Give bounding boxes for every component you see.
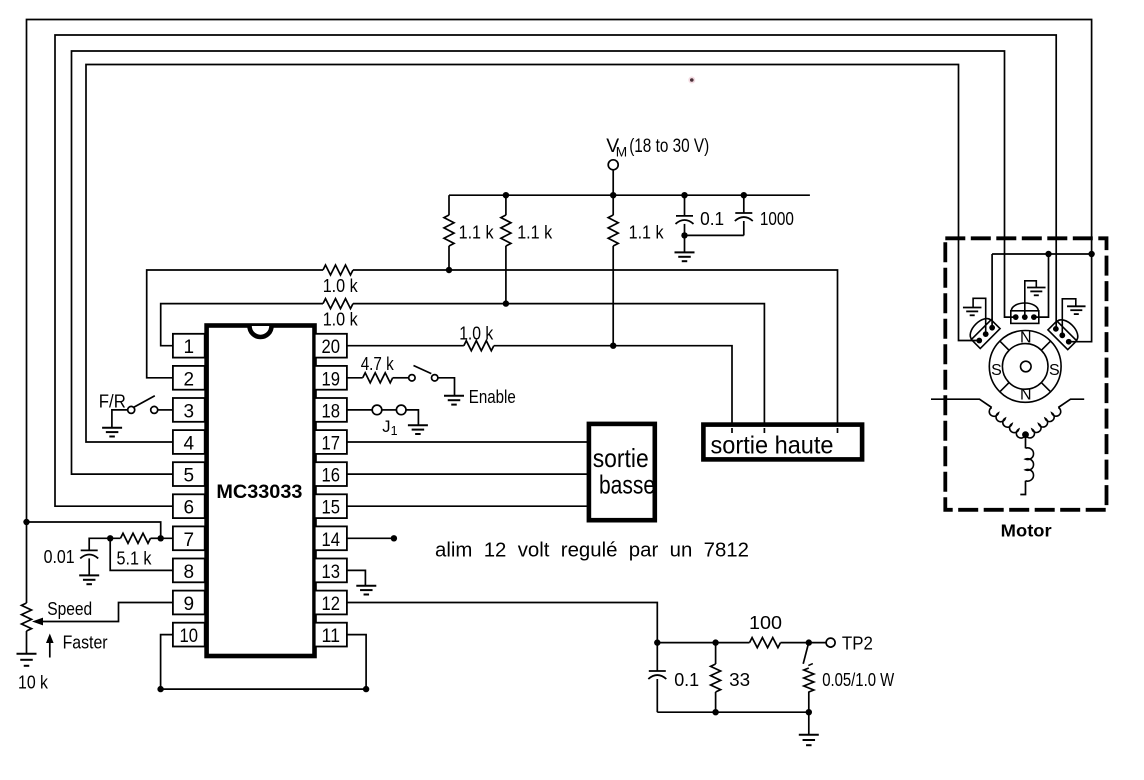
svg-text:20: 20 xyxy=(322,337,341,358)
svg-text:13: 13 xyxy=(322,562,341,583)
ground sense xyxy=(799,734,819,736)
box sortie haute xyxy=(703,425,862,460)
pin 15 box xyxy=(315,494,347,518)
resistor 1.1 k (mid) leads xyxy=(505,195,507,215)
svg-text:J: J xyxy=(382,418,390,436)
wiper arrow xyxy=(32,618,43,626)
wire pin15 to sortie basse xyxy=(347,505,592,507)
jumper J1 link xyxy=(382,409,397,411)
rotor hub xyxy=(1021,361,1032,372)
node junction bus1 x=449 xyxy=(446,267,452,273)
arrow Faster xyxy=(49,641,51,658)
pin 2 box xyxy=(173,366,205,390)
wire pin18 to J1 xyxy=(347,409,372,411)
wire bus2 pin1 net y=303.6 xyxy=(161,304,323,346)
jumper J1 circle left xyxy=(372,405,382,415)
red annotation dot xyxy=(688,77,695,84)
node junction bottom x=808.8 xyxy=(806,709,812,715)
svg-text:8: 8 xyxy=(184,562,195,583)
svg-text:10 k: 10 k xyxy=(18,672,49,693)
svg-text:11: 11 xyxy=(322,626,341,647)
resistor 1.1 k (right) xyxy=(608,215,618,246)
wire pin13 to ground xyxy=(347,570,366,585)
svg-text:Faster: Faster xyxy=(63,633,108,653)
switch enable blade xyxy=(414,366,432,374)
resistor 1.1 k (mid) xyxy=(501,215,511,246)
pin 19 box xyxy=(315,366,347,390)
wire pin17 to sortie basse xyxy=(347,441,592,443)
resistor 33 xyxy=(711,664,721,692)
ground pot xyxy=(17,653,37,655)
wire rail pin6 net: x=55 / y=35 / x=1056.2 xyxy=(55,35,1056,506)
wire rail1 to pin7 xyxy=(27,522,173,538)
svg-text:1.0 k: 1.0 k xyxy=(323,309,359,330)
svg-text:6: 6 xyxy=(184,498,195,519)
pin 4 box xyxy=(173,430,205,454)
svg-text:18: 18 xyxy=(322,401,341,422)
svg-text:0.05/1.0 W: 0.05/1.0 W xyxy=(822,669,894,690)
svg-text:S: S xyxy=(1049,362,1060,379)
wire pin12 to sense network xyxy=(347,603,657,643)
pin 7 box xyxy=(173,526,205,550)
pin 3 box xyxy=(173,398,205,422)
svg-text:1.1 k: 1.1 k xyxy=(629,222,665,243)
wire bus1 into haute xyxy=(837,428,839,433)
winding stub right xyxy=(1058,399,1084,407)
ground below 0.1 xyxy=(675,251,695,253)
switch F/R contact left xyxy=(128,406,135,413)
wire 5.1k left to cap/pin8 xyxy=(151,537,161,539)
resistor 100 xyxy=(750,638,781,648)
capacitor 0.1 top lead xyxy=(684,195,686,216)
svg-text:1.0 k: 1.0 k xyxy=(459,323,494,344)
wire VM terminal to bus xyxy=(612,170,614,195)
node VM terminal xyxy=(608,160,618,170)
wire bus1 pin2 net y=270 xyxy=(147,270,323,378)
wire pin16 to sortie basse xyxy=(347,473,592,475)
svg-text:33: 33 xyxy=(729,669,750,690)
node junction VM bus x=505.9 xyxy=(503,192,509,198)
capacitor 1000 top lead xyxy=(743,195,745,213)
node junction pin7 xyxy=(158,535,164,541)
node junction VM bus x=613.2 xyxy=(610,192,616,198)
node junction pin20/1.1k xyxy=(610,343,616,349)
svg-text:4: 4 xyxy=(184,434,195,455)
resistor 0.05/1.0 W xyxy=(804,668,814,692)
resistor 1.1 k (left) xyxy=(444,215,454,246)
node junction 5.1k left xyxy=(107,535,113,541)
wire pin9 to wiper xyxy=(40,603,173,622)
resistor 1.0 k (bus1) xyxy=(323,265,353,275)
svg-text:alim 12 volt regulé par u: alim 12 volt regulé par un 7812 xyxy=(435,539,749,562)
pin 12 box xyxy=(315,591,347,615)
svg-text:4.7 k: 4.7 k xyxy=(361,353,395,374)
potentiometer 10 k xyxy=(22,603,32,631)
svg-text:5: 5 xyxy=(184,466,195,487)
pin 20 box xyxy=(315,334,347,358)
wire cap bottoms xyxy=(685,234,744,236)
resistor 1.0 k (pin20) xyxy=(464,341,494,351)
winding coil right xyxy=(1025,408,1060,438)
jumper J1 circle right xyxy=(396,405,406,415)
wire hall common rail y=254 xyxy=(991,254,993,328)
node pin11 rail xyxy=(363,686,369,692)
wire J1 to ground xyxy=(406,410,418,425)
motor dashed enclosure xyxy=(945,238,1106,510)
svg-text:Motor: Motor xyxy=(1001,521,1052,541)
hall sensor left xyxy=(966,314,1000,348)
pin 5 box xyxy=(173,462,205,486)
pin 10 box xyxy=(173,623,205,647)
svg-text:100: 100 xyxy=(749,612,782,633)
U1 notch xyxy=(250,326,272,337)
svg-text:7: 7 xyxy=(184,530,195,551)
svg-text:1000: 1000 xyxy=(760,208,794,229)
node pin10 rail xyxy=(157,686,163,692)
pin 8 box xyxy=(173,559,205,583)
svg-text:16: 16 xyxy=(322,466,341,487)
pin 11 box xyxy=(315,623,347,647)
node junction hall rail x=1048.5 xyxy=(1045,251,1051,257)
resistor 1.0 k (bus2) xyxy=(323,299,353,309)
svg-text:5.1 k: 5.1 k xyxy=(117,548,153,569)
wire VM bus y=195.2 xyxy=(449,194,810,196)
switch F/R contact right xyxy=(151,406,158,413)
svg-text:17: 17 xyxy=(322,434,341,455)
capacitor 0.1 bottom lead xyxy=(684,224,686,236)
rotor inner circle xyxy=(1002,344,1048,390)
pin 9 box xyxy=(173,591,205,615)
capacitor 0.01 xyxy=(81,549,98,551)
ground J1 xyxy=(408,424,428,426)
capacitor 0.1 xyxy=(676,215,693,217)
ground pin13 xyxy=(356,585,376,587)
wire to sense ground xyxy=(808,712,810,735)
node junction bottom x=715.6 xyxy=(712,709,718,715)
pin 18 box xyxy=(315,398,347,422)
wire pot to ground xyxy=(26,631,28,654)
svg-text:9: 9 xyxy=(184,594,195,615)
switch enable contact left xyxy=(409,375,415,381)
resistor 1.1 k (right) leads xyxy=(612,195,614,215)
capacitor 1000 bottom lead xyxy=(743,221,745,235)
svg-text:19: 19 xyxy=(322,369,341,390)
svg-text:1.0 k: 1.0 k xyxy=(323,275,359,296)
svg-text:14: 14 xyxy=(322,530,341,551)
capacitor 0.1 (sense) top lead xyxy=(656,643,658,671)
wire rail pin5 net: x=71.5 / y=51 / x=1004.5 xyxy=(72,51,1016,474)
svg-text:12: 12 xyxy=(322,594,341,615)
wire coil bottom tail xyxy=(1020,481,1025,495)
svg-text:Speed: Speed xyxy=(47,599,92,619)
node winding star junction xyxy=(1022,431,1029,438)
wire bus2 into haute xyxy=(763,428,765,433)
hall sensor right xyxy=(1048,315,1082,349)
wire pin20 net into haute xyxy=(731,428,733,433)
svg-text:N: N xyxy=(1020,387,1032,404)
pin 13 box xyxy=(315,559,347,583)
pin 16 box xyxy=(315,462,347,486)
svg-text:TP2: TP2 xyxy=(842,633,873,654)
capacitor 1000 xyxy=(735,212,752,214)
wire switch to ground xyxy=(438,378,454,396)
node junction VM bus x=743.8 xyxy=(741,192,747,198)
resistor 0.05 bottom lead xyxy=(808,692,810,713)
svg-text:1.1 k: 1.1 k xyxy=(459,222,495,243)
svg-text:N: N xyxy=(1020,329,1032,346)
svg-text:sortie: sortie xyxy=(593,443,649,473)
svg-text:0.1: 0.1 xyxy=(700,208,724,229)
wire ground lead below 0.1 xyxy=(684,235,686,252)
svg-text:sortie haute: sortie haute xyxy=(711,431,834,459)
wire pin11 down xyxy=(347,635,366,690)
node junction sense x=715.6 xyxy=(712,639,718,645)
rotor outer circle xyxy=(989,331,1061,403)
node junction sense x=808.8 xyxy=(806,639,812,645)
resistor 0.05 sense diag xyxy=(803,645,808,664)
node junction cap 0.1 bottom xyxy=(681,232,687,238)
svg-text:Enable: Enable xyxy=(469,387,516,407)
resistor 33 leads xyxy=(715,643,717,664)
ground F/R xyxy=(102,427,122,429)
node TP2 terminal xyxy=(826,638,835,647)
switch enable contact right xyxy=(432,375,438,381)
svg-text:(18 to 30 V): (18 to 30 V) xyxy=(629,136,709,157)
winding stub left xyxy=(931,399,992,407)
ground hall right xyxy=(1062,299,1076,336)
node junction bus2 x=505.9 xyxy=(503,300,509,306)
svg-text:0.1: 0.1 xyxy=(674,669,699,690)
switch F/R blade xyxy=(134,396,155,408)
wire bottom rail xyxy=(161,688,367,690)
pin 1 box xyxy=(173,334,205,358)
ground 0.01 xyxy=(79,574,99,576)
svg-text:M: M xyxy=(616,145,627,160)
wire sense bottom rail xyxy=(657,711,809,713)
capacitor 0.1 (sense) bottom lead xyxy=(656,679,658,712)
node junction rail1 x=26.5 xyxy=(23,519,29,525)
svg-text:1.1 k: 1.1 k xyxy=(517,222,553,243)
svg-text:3: 3 xyxy=(184,401,195,422)
wire junction to pin8 xyxy=(110,538,173,570)
svg-text:1: 1 xyxy=(391,424,398,438)
node pin14 end xyxy=(391,535,397,541)
wire 0.01 to ground xyxy=(88,558,90,575)
resistor 4.7 k xyxy=(363,373,393,383)
ground hall left xyxy=(973,298,986,334)
svg-text:2: 2 xyxy=(184,369,195,390)
ground hall top xyxy=(1025,281,1037,317)
wire sense top rail xyxy=(657,642,749,644)
pin 17 box xyxy=(315,430,347,454)
svg-text:F/R: F/R xyxy=(99,392,126,412)
svg-text:MC33033: MC33033 xyxy=(216,481,302,503)
resistor 1.1 k (left) leads xyxy=(448,195,450,215)
svg-text:1: 1 xyxy=(184,337,195,358)
resistor 5.1 k xyxy=(121,533,151,543)
svg-text:0.01: 0.01 xyxy=(44,546,75,567)
wire pin14 stub xyxy=(347,537,394,539)
wire rail net-speed (pin7 feed): left x=26.5 top y=19.5 right x=1091.6 xyxy=(27,20,1092,604)
rotor pole dividers xyxy=(1041,383,1050,392)
hall sensor top xyxy=(1011,303,1039,323)
capacitor 0.1 (sense) xyxy=(649,670,666,672)
pin 14 box xyxy=(315,526,347,550)
svg-text:basse: basse xyxy=(599,470,655,500)
pin 6 box xyxy=(173,494,205,518)
node junction hall rail x=1091.6 xyxy=(1088,251,1094,257)
node junction sense left xyxy=(654,639,660,645)
wire 4.7k to switch xyxy=(393,377,409,379)
node junction VM bus x=684.5 xyxy=(681,192,687,198)
wire rail pin4 net: x=86 / y=64.5 / x=958.5 xyxy=(86,65,979,443)
winding coil left xyxy=(989,408,1025,439)
svg-text:10: 10 xyxy=(180,626,199,647)
svg-text:S: S xyxy=(991,362,1002,379)
wire star to coil xyxy=(1025,435,1027,449)
winding coil bottom xyxy=(1026,448,1034,481)
svg-text:15: 15 xyxy=(322,498,341,519)
box sortie basse xyxy=(589,424,655,520)
ground Enable xyxy=(444,395,464,397)
wire pin3 to switch xyxy=(158,409,173,411)
op-amp U1 MC33033 body xyxy=(207,326,315,657)
wire F/R to ground xyxy=(112,410,128,428)
wire pin20 net xyxy=(347,345,464,347)
wire pin19 to 4.7k xyxy=(347,377,363,379)
wire pin10 down xyxy=(161,635,173,690)
